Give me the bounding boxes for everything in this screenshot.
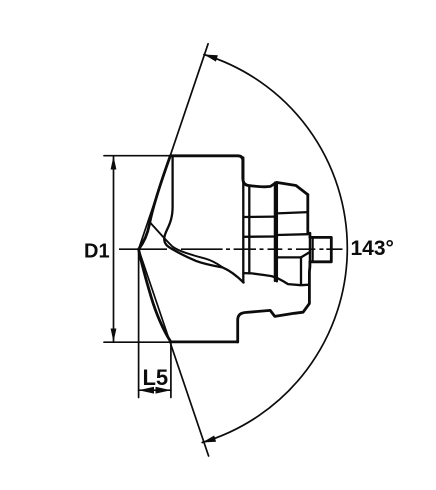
- cone edge upper: [139, 156, 171, 249]
- body outline top: [170, 156, 307, 195]
- body right face line: [242, 158, 244, 283]
- L5 arrow right: [156, 387, 171, 394]
- L5 extension line left: [138, 251, 140, 398]
- flange left face line a: [274, 183, 276, 281]
- flute floor edge: [244, 273, 310, 285]
- body bottom edge: [171, 340, 238, 343]
- angle arc: [202, 55, 347, 443]
- back bottom silhouette: [238, 262, 310, 342]
- neck face line: [248, 186, 250, 274]
- arc arrowhead top: [204, 55, 218, 62]
- cone edge lower: [139, 249, 171, 342]
- svg-text:L5: L5: [142, 365, 168, 390]
- flange lower vertical: [300, 257, 302, 285]
- D1 extension line top: [104, 155, 170, 157]
- flank branch edge: [150, 223, 222, 268]
- L5 dimension line: [139, 389, 171, 391]
- wire angle line lower: [139, 249, 209, 456]
- centerline: [119, 248, 343, 250]
- pin face line: [311, 237, 313, 261]
- D1 dimension line: [113, 156, 115, 342]
- arc arrowhead bottom: [202, 436, 216, 443]
- flange right face and pin: [308, 195, 332, 262]
- neck facet line 2: [244, 235, 275, 238]
- flange facet line 2: [277, 233, 308, 236]
- pin step line: [309, 233, 311, 266]
- flange left face line b: [276, 182, 278, 281]
- svg-text:143°: 143°: [351, 237, 394, 260]
- neck facet line 1: [244, 215, 275, 218]
- wire angle line upper: [139, 44, 209, 249]
- L5 arrow left: [139, 387, 154, 394]
- D1 arrow top: [111, 156, 117, 170]
- chamfer edge below pin: [301, 252, 310, 257]
- L5 extension line right: [170, 342, 172, 397]
- flange facet line 1: [277, 212, 308, 213]
- svg-text:D1: D1: [84, 240, 110, 262]
- flange facet line 3: [277, 256, 301, 258]
- D1 arrow bottom: [111, 329, 117, 343]
- D1 extension line bottom: [104, 341, 171, 343]
- lip curve: [164, 156, 243, 282]
